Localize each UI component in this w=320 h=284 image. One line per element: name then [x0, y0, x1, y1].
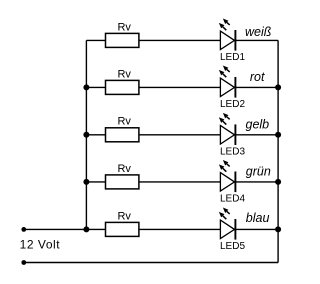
svg-text:Rv: Rv	[117, 68, 131, 80]
wire right bus	[277, 40, 279, 262]
resistor Rv row 4	[106, 175, 139, 189]
wire left bus	[85, 40, 87, 229]
svg-text:Rv: Rv	[117, 163, 131, 175]
resistor Rv row 3	[106, 128, 139, 142]
svg-text:grün: grün	[246, 165, 271, 179]
svg-text:LED3: LED3	[220, 147, 245, 158]
resistor Rv row 2	[106, 80, 139, 94]
wire row 1	[86, 39, 220, 41]
svg-text:12 Volt: 12 Volt	[20, 238, 61, 252]
svg-text:gelb: gelb	[246, 118, 270, 132]
svg-text:Rv: Rv	[117, 21, 131, 33]
wire row 4	[86, 181, 220, 183]
LED5	[219, 208, 236, 240]
junction left row 5	[83, 226, 89, 232]
LED3	[219, 113, 236, 145]
terminal supply plus	[21, 227, 26, 232]
svg-text:LED4: LED4	[220, 194, 245, 205]
wire row 5 from supply	[24, 228, 221, 230]
junction right row 4	[275, 179, 281, 185]
svg-text:weiß: weiß	[245, 25, 272, 39]
terminal supply minus	[21, 260, 26, 265]
LED2	[219, 66, 236, 98]
svg-text:LED1: LED1	[220, 52, 245, 63]
LED1	[219, 19, 236, 51]
LED4	[219, 160, 236, 192]
resistor Rv row 1	[106, 33, 139, 47]
junction left row 3	[83, 132, 89, 138]
junction right row 5	[275, 226, 281, 232]
junction right row 2	[275, 84, 281, 90]
resistor Rv row 5	[106, 222, 139, 236]
svg-text:rot: rot	[250, 70, 265, 84]
wire row 3	[86, 134, 220, 136]
wire row 2	[86, 86, 220, 88]
junction right row 3	[275, 132, 281, 138]
svg-text:Rv: Rv	[117, 210, 131, 222]
wire bottom return	[24, 262, 278, 264]
svg-text:blau: blau	[246, 211, 270, 225]
svg-text:LED5: LED5	[220, 241, 245, 252]
junction left row 2	[83, 84, 89, 90]
svg-text:Rv: Rv	[117, 116, 131, 128]
junction left row 4	[83, 179, 89, 185]
svg-text:LED2: LED2	[220, 99, 245, 110]
